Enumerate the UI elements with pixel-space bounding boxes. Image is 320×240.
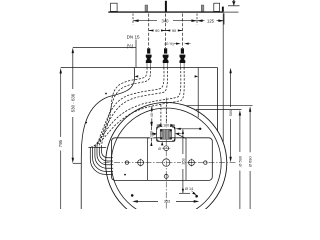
svg-text:Ø: Ø <box>158 147 161 151</box>
svg-text:353: 353 <box>164 200 170 204</box>
svg-text:Ø 690: Ø 690 <box>248 156 253 167</box>
iBox body <box>160 129 171 139</box>
vertical centerline <box>165 98 167 210</box>
svg-text:DN 15: DN 15 <box>127 34 140 39</box>
template left outline curve <box>81 68 134 209</box>
horizontal centerline <box>104 162 237 164</box>
svg-text:500: 500 <box>228 109 233 116</box>
wire block bend 6 <box>90 147 112 174</box>
wire block bend 4 <box>95 147 113 168</box>
small mark on outline lower <box>85 122 87 124</box>
svg-text:40: 40 <box>150 113 154 117</box>
dimension 530 - 630 <box>72 48 74 54</box>
pipe connector 3 <box>180 48 186 63</box>
template top edge + left reference line <box>61 67 218 69</box>
dimension 500 <box>229 68 231 74</box>
dimension 353 bottom <box>132 200 138 203</box>
wire block bend 5 <box>93 147 113 171</box>
dimension D590 <box>239 110 241 116</box>
rail clip left <box>111 3 118 11</box>
wire block bend 2 <box>99 147 113 161</box>
pipe centerlines top <box>149 14 183 49</box>
dimension 340 extension lines <box>132 14 134 25</box>
ceiling gap mini-dimension top right <box>232 0 235 1</box>
wire pipe2 left wall <box>97 68 164 148</box>
dimension 340 <box>133 20 157 22</box>
svg-text:125: 125 <box>207 18 215 23</box>
rail clip mid-left <box>145 5 148 11</box>
dimension 125 <box>197 19 203 22</box>
rail end bracket <box>222 7 224 12</box>
chamfer line left <box>148 134 156 139</box>
fixing arrow left <box>135 75 139 77</box>
plate divider left <box>147 138 149 180</box>
iBox corner ticks <box>157 127 175 141</box>
wire pipe2 right wall <box>95 68 168 148</box>
wire block bend 3 <box>97 147 113 164</box>
rail center mark <box>165 1 167 13</box>
wire pipe3 right wall <box>90 68 184 148</box>
right reference line B (D590 top) <box>196 109 242 111</box>
iBox outer outline <box>157 127 175 142</box>
dimension 90 / 90 <box>149 30 183 32</box>
inner circle D590 <box>111 108 221 218</box>
plate holes on centerline <box>125 161 128 164</box>
dimension 353 vertical <box>182 129 184 134</box>
plate divider right <box>185 138 187 180</box>
mounting plate rectangle <box>112 138 213 181</box>
rail clip mid-right <box>201 5 204 11</box>
D14 hole dots <box>195 195 198 198</box>
supply pipe dashed curves <box>90 68 184 148</box>
upper small hole <box>164 146 169 151</box>
svg-text:795: 795 <box>58 139 63 147</box>
iBox side press arrows <box>152 133 157 135</box>
svg-text:353: 353 <box>181 158 185 164</box>
wire pipe1 left wall <box>102 68 148 148</box>
small mark on outline upper <box>105 93 107 95</box>
center hole <box>163 159 170 166</box>
wire pipe3 left wall <box>93 68 181 148</box>
iBox feed pipe dashed pair <box>160 105 162 127</box>
iBox dimension 180 horizontal <box>157 124 175 126</box>
dimension 795 <box>60 68 62 74</box>
dimension 40 circle-to-box <box>151 106 153 126</box>
svg-text:530 - 630: 530 - 630 <box>70 93 75 112</box>
rail clip right <box>214 3 220 11</box>
leader with dot <box>175 128 181 130</box>
ceiling mounting rail <box>108 11 224 12</box>
pipe connector 1 <box>146 48 152 63</box>
fixing interval extension line right <box>197 68 199 118</box>
svg-text:(G ½): (G ½) <box>165 42 174 46</box>
chamfer line right <box>176 134 186 139</box>
small mark lower left plate <box>124 174 126 176</box>
wire block bend 1 <box>102 147 113 157</box>
svg-text:Ø 14: Ø 14 <box>185 187 193 191</box>
template right edge <box>217 68 219 132</box>
DN15 leader line <box>135 40 137 68</box>
connection block top line <box>88 146 106 148</box>
fixing arrow right <box>195 75 199 77</box>
iBox bottom press arrow <box>161 142 163 146</box>
connection level reference line <box>73 47 136 49</box>
dimension D690 <box>249 106 251 112</box>
lower small hole <box>164 174 168 178</box>
svg-text:180: 180 <box>163 124 169 128</box>
wire pipe1 right wall <box>99 68 150 148</box>
pipe connector 2 <box>163 48 169 63</box>
outer circle D690 <box>106 102 227 223</box>
svg-text:Ø 590: Ø 590 <box>237 155 242 166</box>
iBox dimension 180 vertical <box>150 127 152 142</box>
right reference line A (D690 top) <box>186 105 253 107</box>
extension line from rail right <box>222 13 224 142</box>
